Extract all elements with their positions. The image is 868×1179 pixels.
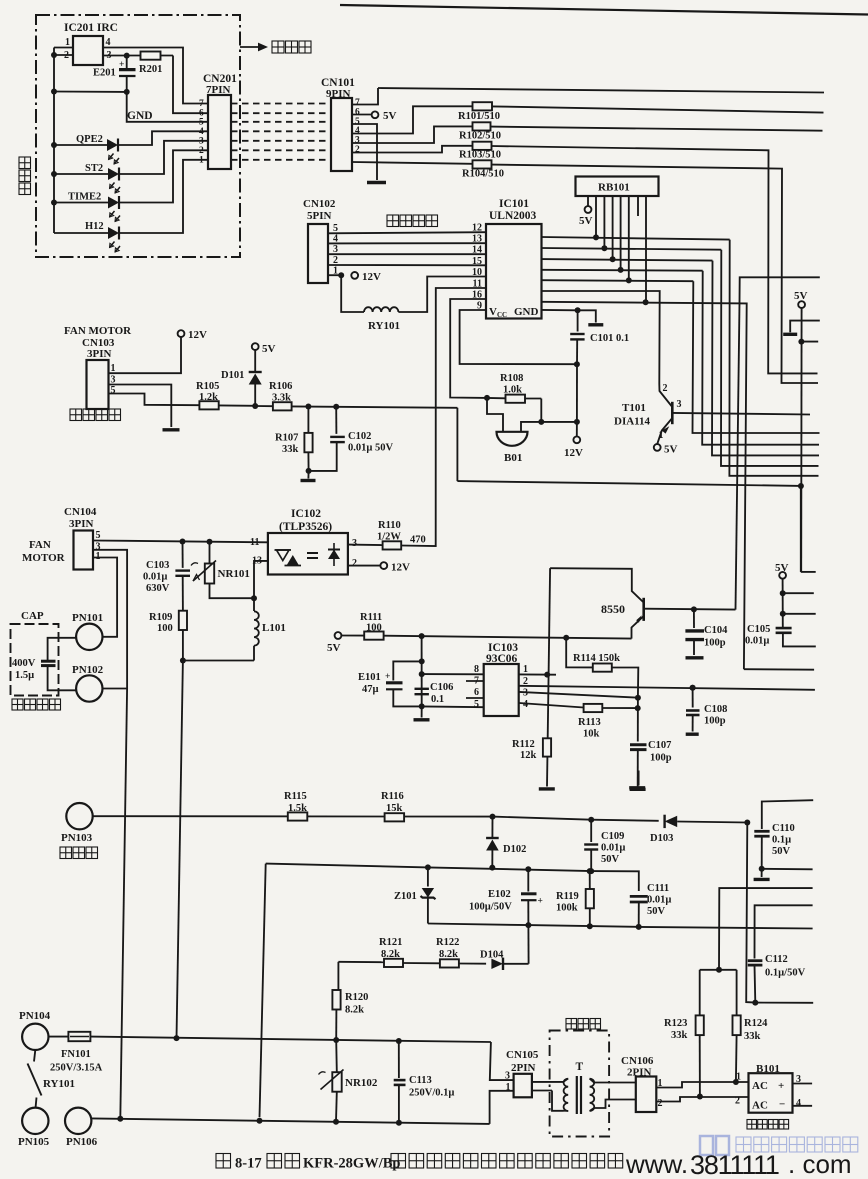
label stepper motor (bujin dianji) [387, 215, 399, 227]
resistor R107 33k [307, 407, 309, 433]
wire 8550 collector row to C104 [644, 608, 736, 611]
wire CN102 pin4 to IC101 pin13 [328, 242, 486, 244]
svg-text:5: 5 [333, 223, 338, 234]
fuse FN101 250V/3.15A [49, 1036, 69, 1038]
RB101 pin7 stub [637, 196, 639, 216]
label bianyaqi (transformer) [566, 1019, 577, 1030]
svg-text:NR102: NR102 [345, 1077, 378, 1089]
svg-text:R108: R108 [500, 373, 523, 384]
relay coil RY101 [341, 275, 364, 312]
wire IC103 pin2 long row [519, 686, 815, 690]
resistor R116 15k [385, 813, 405, 821]
display board dash-dot border [36, 15, 240, 257]
svg-text:D102: D102 [503, 844, 526, 855]
connector CN102 5PIN [308, 224, 328, 283]
wire GND net to CN201 pin5 [127, 92, 208, 122]
wire 8550 base net down to R112/IC103 pin1 [547, 568, 550, 786]
svg-text:www.: www. [625, 1149, 688, 1179]
wire R121 row [338, 961, 384, 963]
wire R101 output [492, 106, 824, 112]
svg-text:PN105: PN105 [18, 1136, 50, 1148]
svg-text:+: + [385, 672, 390, 682]
capacitor symbol inside CAP box [41, 660, 56, 663]
svg-text:4: 4 [106, 37, 111, 48]
connector CN106 2PIN [636, 1077, 657, 1113]
svg-text:TIME2: TIME2 [68, 192, 101, 203]
wire secondary to CN106 [590, 1079, 636, 1083]
wire IC201 pin3 to R201 [103, 55, 127, 57]
svg-text:250V/3.15A: 250V/3.15A [50, 1063, 103, 1074]
wire CN101 pin5 to ground [352, 124, 377, 180]
wire C110 bottom stub and ground [762, 868, 813, 871]
svg-text:1/2W: 1/2W [377, 532, 401, 543]
wire CN103 pin3 to ground [109, 385, 172, 428]
svg-text:9PIN: 9PIN [326, 88, 351, 100]
capacitor E101 47u electrolytic [393, 661, 421, 680]
svg-text:1: 1 [199, 155, 204, 165]
wire CN106 pin1 to B101 AC1 [656, 1082, 748, 1088]
wire 12V net down to terminal [576, 364, 578, 422]
svg-text:11: 11 [250, 537, 259, 548]
capacitor E201 electrolytic [126, 56, 128, 68]
svg-text:0.1µ: 0.1µ [772, 835, 791, 846]
svg-text:8.2k: 8.2k [345, 1005, 364, 1016]
watermark site logo [700, 1136, 729, 1155]
wire CN101 pin7 top long wire [352, 88, 378, 105]
wire CN102 pin2 to IC101 pin15 [328, 264, 486, 266]
svg-text:CAP: CAP [21, 610, 44, 622]
svg-text:250V/0.1µ: 250V/0.1µ [409, 1088, 454, 1099]
wire IC103 pin5 row [422, 705, 484, 708]
svg-text:5V: 5V [775, 562, 789, 574]
svg-text:100: 100 [366, 623, 382, 634]
svg-text:50V: 50V [772, 846, 791, 857]
svg-text:5V: 5V [327, 642, 341, 654]
resistor R121 8.2k [384, 959, 403, 967]
svg-text:33k: 33k [744, 1031, 761, 1042]
wire R105 to D101 node [219, 404, 256, 406]
svg-text:3.3k: 3.3k [272, 393, 291, 404]
svg-text:4: 4 [355, 126, 360, 136]
wire CN103 pin1 to 12V [109, 337, 182, 373]
wire R114 to pin3 node [612, 668, 639, 698]
svg-text:+: + [538, 897, 543, 907]
wire IC103 pin1 row [519, 673, 556, 675]
wire IC101 pin9 Vcc to 12V net [460, 310, 577, 364]
wire live fuse row [90, 1037, 491, 1042]
wire CN104 pin5 to IC102 pin11 row [93, 541, 268, 543]
svg-text:V: V [489, 306, 497, 318]
wire D103 net down right column [746, 823, 755, 1003]
terminal PN102 [76, 675, 102, 701]
svg-text:ULN2003: ULN2003 [489, 210, 537, 222]
svg-text:C101 0.1: C101 0.1 [590, 333, 629, 344]
svg-text:R104/510: R104/510 [462, 169, 504, 180]
svg-text:PN102: PN102 [72, 664, 104, 676]
svg-text:R106: R106 [269, 381, 292, 392]
ground under C107 [630, 788, 646, 791]
svg-text:47µ: 47µ [362, 684, 379, 695]
wire L101 bottom row [183, 660, 254, 662]
svg-text:5: 5 [199, 117, 204, 127]
connector CN104 3PIN [74, 531, 94, 570]
capacitor C109 0.01u 50V [588, 817, 594, 823]
wire IC101 GND pin to ground [542, 309, 578, 311]
svg-text:R109: R109 [149, 612, 172, 623]
resistor R110 470 1/2W [383, 541, 402, 549]
svg-text:MOTOR: MOTOR [22, 552, 66, 564]
svg-text:C112: C112 [765, 954, 788, 965]
step wires descending right (5 nets) [729, 240, 818, 476]
svg-text:Z101: Z101 [394, 891, 417, 902]
svg-text:630V: 630V [146, 583, 170, 594]
svg-text:12k: 12k [520, 750, 537, 761]
IC IC102 TLP3526 box [268, 533, 348, 575]
svg-text:4: 4 [523, 699, 528, 710]
svg-text:100p: 100p [650, 753, 672, 764]
capacitor C107 100p [630, 743, 647, 746]
label yunxing dianrong (run capacitor) [12, 699, 23, 710]
svg-text:R124: R124 [744, 1018, 768, 1029]
capacitor C102 [335, 407, 337, 434]
svg-text:QPE2: QPE2 [76, 134, 103, 145]
capacitor C104 100p [693, 609, 695, 628]
capacitor C108 100p [690, 685, 696, 691]
svg-text:R101/510: R101/510 [458, 111, 500, 122]
svg-text:IC101: IC101 [499, 198, 529, 210]
svg-text:C110: C110 [772, 823, 795, 834]
LED TIME2 [54, 202, 108, 204]
svg-text:R105: R105 [196, 381, 219, 392]
svg-text:FN101: FN101 [61, 1049, 91, 1060]
terminal PN101 [76, 624, 102, 650]
wire TIME2 to CN201 pin2 [119, 150, 208, 202]
svg-text:0.1µ/50V: 0.1µ/50V [765, 968, 806, 979]
wire RY101 to IC101 pin10 [398, 277, 486, 313]
svg-text:KFR-28GW/Bp: KFR-28GW/Bp [303, 1156, 400, 1172]
wire 8550-collector net vertical right column [740, 277, 820, 303]
svg-text:R110: R110 [378, 520, 401, 531]
svg-text:2PIN: 2PIN [627, 1067, 652, 1079]
wire CN101 pin4 to R101 [352, 106, 443, 133]
resistor R122 8.2k [440, 959, 459, 967]
wire R103 output to right column [492, 146, 818, 373]
IC102 internal diac symbol [328, 550, 340, 560]
svg-text:L101: L101 [262, 622, 286, 634]
LED QPE2 [54, 144, 107, 146]
svg-text:R121: R121 [379, 937, 402, 948]
ground under R107/C102 [307, 471, 309, 479]
svg-text:ST2: ST2 [85, 163, 103, 174]
RB101 pin4 wire down [612, 196, 614, 259]
capacitor C105 column [782, 579, 784, 627]
resistor R115 1.5k [288, 812, 308, 820]
svg-text:12V: 12V [564, 447, 583, 459]
wire CN105 pin1 to neutral row [490, 1091, 514, 1124]
svg-text:R103/510: R103/510 [459, 150, 501, 161]
wire R201 to CN201 pin6 [173, 56, 208, 114]
relay contact RY101 [34, 1050, 35, 1062]
svg-text:C109: C109 [601, 831, 624, 842]
wire CN101 pin2 to R103 [352, 146, 472, 153]
label zhengliu guiqiao (bridge) [747, 1120, 757, 1130]
svg-text:8-17: 8-17 [235, 1156, 262, 1172]
wire IC103 pin3 row [519, 692, 638, 698]
wire rectifier bottom long row [428, 924, 813, 929]
wire IC101 pin11 to R110 net vertical [436, 288, 486, 546]
svg-text:5PIN: 5PIN [307, 210, 332, 222]
svg-text:E101: E101 [358, 672, 381, 683]
arrow to display-board label [240, 46, 264, 48]
svg-text:C105: C105 [747, 624, 770, 635]
IC IC103 93C06 box [484, 664, 519, 716]
svg-text:3: 3 [355, 136, 360, 146]
svg-text:5: 5 [474, 699, 479, 710]
wire R114 tap down [566, 638, 593, 668]
wire neutral row PN106 [92, 1118, 490, 1124]
svg-text:2: 2 [735, 1096, 740, 1107]
wire R106 net long row to right [457, 481, 800, 572]
resistor R112 12k on base net [543, 738, 551, 756]
connector CN103 3PIN [87, 360, 109, 409]
svg-text:1.2k: 1.2k [199, 392, 218, 403]
svg-text:CN104: CN104 [64, 506, 97, 518]
svg-text:1: 1 [65, 37, 70, 48]
capacitor C103 630V [182, 542, 184, 568]
svg-text:+: + [778, 1080, 784, 1092]
resistor R114 150k [593, 664, 612, 672]
svg-text:R113: R113 [578, 717, 601, 728]
capacitor C112 0.1u/50V [755, 905, 813, 958]
resistor R113 10k [584, 704, 603, 712]
resistor R102/510 [473, 122, 491, 130]
wire mains live down to fuse row [177, 661, 183, 1039]
svg-text:NR101: NR101 [218, 568, 250, 580]
wire IC101 out5 row [542, 280, 694, 281]
diode D104 [491, 959, 503, 969]
svg-text:R116: R116 [381, 791, 404, 802]
svg-text:R112: R112 [512, 739, 535, 750]
svg-text:FAN: FAN [29, 539, 51, 551]
svg-text:2: 2 [333, 255, 338, 266]
wire 5V column down [800, 308, 802, 572]
svg-text:C103: C103 [146, 560, 169, 571]
RB101 pin2 wire down [595, 196, 597, 237]
svg-text:(TLP3526): (TLP3526) [279, 521, 332, 533]
svg-text:50V: 50V [601, 854, 620, 865]
IC201 remote IC box [73, 36, 103, 65]
wire NR101 to L101 top node [210, 584, 255, 599]
diode D101 to 5V [252, 343, 259, 350]
5V terminal above C105 [779, 572, 786, 579]
svg-text:3: 3 [505, 1071, 510, 1082]
wire CN101 pin3 to R102 [352, 126, 472, 143]
svg-text:1: 1 [659, 430, 664, 441]
svg-text:400V: 400V [12, 658, 36, 669]
svg-text:C108: C108 [704, 704, 727, 715]
IC103 pin6 stub [466, 697, 484, 699]
svg-text:5V: 5V [794, 290, 808, 302]
varistor NR102 [332, 1072, 341, 1092]
svg-text:R119: R119 [556, 891, 579, 902]
svg-text:2PIN: 2PIN [511, 1062, 536, 1074]
svg-text:RY101: RY101 [368, 320, 400, 332]
svg-text:4: 4 [199, 127, 204, 137]
svg-text:PN101: PN101 [72, 612, 103, 624]
svg-text:100k: 100k [556, 903, 578, 914]
wire fuse row down to CN105 pin3 [490, 1042, 514, 1080]
LED ST2 [54, 173, 108, 175]
wire IC101 out2 row [542, 248, 722, 250]
svg-text:3811111: 3811111 [690, 1150, 779, 1179]
svg-text:E102: E102 [488, 889, 511, 900]
resistor R201 [127, 55, 173, 57]
svg-text:12V: 12V [362, 271, 381, 283]
resistor R124 33k [700, 969, 737, 971]
svg-text:CC: CC [497, 311, 507, 319]
wire R104 output to right column [492, 165, 819, 383]
svg-text:AC: AC [752, 1100, 768, 1112]
diode D102 [491, 817, 493, 838]
wire stub right of 5V column [801, 341, 818, 343]
svg-text:2: 2 [199, 146, 204, 156]
svg-text:R111: R111 [360, 612, 382, 623]
svg-text:R201: R201 [139, 64, 162, 75]
terminal PN106 [65, 1108, 91, 1134]
svg-text:10k: 10k [583, 729, 600, 740]
IC IC101 ULN2003 box [486, 224, 542, 319]
RB101 pin1 to 5V [587, 196, 589, 206]
svg-text:3: 3 [199, 136, 204, 146]
wire E201 bottom row to bus [54, 91, 127, 93]
resistor R101/510 [443, 105, 492, 107]
connector CN101 9PIN [331, 98, 352, 171]
svg-text:0.01µ: 0.01µ [601, 843, 625, 854]
svg-text:R123: R123 [664, 1018, 687, 1029]
resistor R105 1.2k [199, 401, 218, 409]
wire R108 right to B01 node [540, 399, 542, 422]
zener Z101 [427, 867, 429, 886]
svg-text:2: 2 [352, 558, 357, 569]
resistor R111 100 [342, 635, 365, 637]
svg-text:8550: 8550 [601, 602, 625, 616]
svg-text:33k: 33k [282, 444, 299, 455]
svg-text:12V: 12V [391, 562, 410, 574]
caption figure 8-17 [216, 1154, 231, 1169]
transformer dashed box [550, 1031, 610, 1137]
wire row-302 net right stub at 669 [744, 668, 814, 671]
wire R123 net corner row [719, 888, 813, 970]
wire IC103 pin4 row to R113 [519, 703, 583, 708]
svg-text:GND: GND [514, 306, 539, 318]
capacitor C106 0.1 [415, 688, 429, 690]
wire IC102 pin13 from box [254, 561, 268, 611]
svg-text:R114 150k: R114 150k [573, 653, 620, 664]
svg-text:5V: 5V [383, 110, 397, 122]
svg-text:100p: 100p [704, 638, 726, 649]
svg-text:7: 7 [355, 98, 360, 108]
page top scan edge line [340, 5, 868, 15]
wire IC101 out7 row to right column [542, 302, 747, 669]
svg-text:C113: C113 [409, 1075, 432, 1086]
svg-text:B01: B01 [504, 452, 522, 464]
svg-text:C102: C102 [348, 431, 371, 442]
ground at IC101 GND [588, 323, 603, 326]
resistor R108 [487, 397, 506, 399]
svg-text:15k: 15k [386, 803, 403, 814]
wire CN106 pin2 to B101 AC2 [656, 1097, 748, 1102]
svg-text:T101: T101 [622, 402, 646, 414]
wire CN102 pin3 to IC101 pin14 [328, 253, 486, 255]
connector CN105 2PIN [514, 1074, 532, 1098]
svg-text:3: 3 [333, 244, 338, 255]
wire IC101 out4 row [542, 269, 703, 272]
wire IC101 out6 row to T101 [542, 291, 660, 384]
svg-text:D101: D101 [221, 370, 244, 381]
resistor network RB101 [576, 177, 659, 197]
svg-text:C106: C106 [430, 682, 453, 693]
svg-text:CN106: CN106 [621, 1055, 654, 1067]
RB101 pin3 wire down [603, 196, 605, 248]
wire CN104 pin3 to PN102 [93, 550, 127, 689]
svg-text:+: + [119, 60, 124, 70]
wire CN102 pin1 to 12V [328, 274, 341, 276]
svg-text:12V: 12V [188, 329, 207, 341]
svg-text:3: 3 [352, 538, 357, 549]
wire D103 net row right [752, 1000, 758, 1006]
svg-text:C104: C104 [704, 625, 728, 636]
bridge rectifier B101 [749, 1073, 793, 1113]
buzzer B01 [487, 398, 503, 431]
wire Z101 net down to PN106 row [260, 864, 266, 1118]
svg-text:CN105: CN105 [506, 1049, 539, 1061]
ground bracket at 5V column [790, 321, 801, 333]
svg-text:R115: R115 [284, 791, 307, 802]
svg-text:8.2k: 8.2k [381, 949, 400, 960]
wire IC102 pin3 to R110 [348, 544, 383, 547]
wire C105 stubs right [783, 592, 814, 594]
svg-text:D104: D104 [480, 950, 504, 961]
wire CN102 pin5 to IC101 pin12 [328, 232, 486, 233]
ground floating above E102 row [638, 771, 640, 786]
wire PN102 net down to neutral row [120, 689, 127, 1119]
5V terminal at R111 [335, 632, 342, 639]
wire CN103 pin5 to R105 [109, 394, 200, 406]
svg-text:R122: R122 [436, 937, 459, 948]
svg-text:3PIN: 3PIN [87, 348, 112, 360]
svg-text:GND: GND [127, 110, 153, 122]
terminal PN105 [22, 1108, 48, 1134]
svg-text:−: − [779, 1099, 785, 1111]
resistor R119 100k [587, 868, 593, 874]
wire IC103 pin8 row [422, 673, 484, 675]
wire H12 to CN201 pin1 [119, 160, 208, 233]
svg-text:DIA114: DIA114 [614, 416, 651, 428]
wire left bus vertical [53, 48, 55, 234]
svg-text:4: 4 [333, 234, 338, 245]
svg-text:. com: . com [788, 1149, 852, 1179]
wire R113 node down to C107 [637, 698, 639, 742]
svg-text:E201: E201 [93, 68, 116, 79]
wire QPE2 to CN201 pin4 [118, 131, 208, 145]
ground under R112 [539, 787, 555, 790]
resistor R123 33k [699, 970, 701, 1016]
wire CN104 pin1 to PN101 [93, 558, 117, 637]
transistor T101 DIA114 [671, 402, 674, 424]
svg-text:5: 5 [96, 530, 101, 541]
svg-text:IC102: IC102 [291, 508, 321, 520]
svg-text:6: 6 [474, 687, 479, 698]
